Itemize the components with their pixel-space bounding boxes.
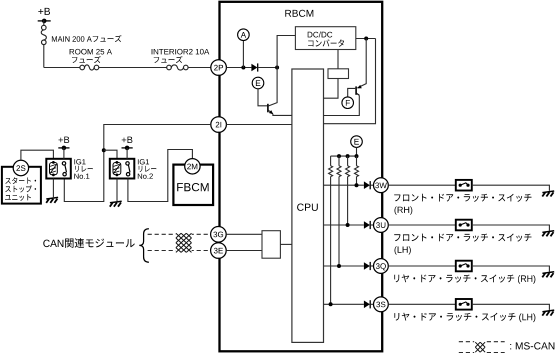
- wire ROOM fuse to INTERIOR2 fuse: [99, 67, 167, 69]
- door latch switch 3S: [456, 299, 472, 310]
- relay IG1 No.2: [110, 159, 157, 179]
- diode D-3U: [364, 221, 370, 229]
- +B supply (main): [38, 8, 51, 23]
- wire E to resistor bar: [356, 147, 358, 156]
- wire diode to connector 3U: [371, 224, 374, 226]
- wire E to Q1 base: [258, 89, 267, 106]
- wire DC/DC output to node 3: [356, 38, 376, 40]
- wire switch to ground: [472, 185, 550, 191]
- fuse ROOM 25A: [70, 49, 112, 70]
- diode D1: [251, 63, 257, 71]
- ground switch 3U: [542, 231, 554, 237]
- wire junction to circle A: [242, 41, 244, 68]
- wire diode to connector 3Q: [371, 265, 374, 267]
- wire CPU to 3U: [324, 224, 364, 226]
- legend MS-CAN dashed wire: [459, 341, 505, 343]
- wire +B to relay1 switch: [63, 148, 65, 159]
- wire +B to fuse: [43, 20, 45, 25]
- RBCM module box: [220, 2, 383, 352]
- relay coil L1 (box): [328, 69, 349, 79]
- legend label MS-CAN: [510, 342, 554, 349]
- +B supply relay No.2: [122, 137, 133, 151]
- wire CPU to 3W: [324, 184, 364, 186]
- wire Q2 base to circle F: [348, 88, 356, 97]
- wire switch to ground: [472, 304, 550, 310]
- wire node3 down to Q2 emitter: [357, 39, 366, 88]
- circle E (base drive): [252, 77, 264, 89]
- ground relay2: [110, 201, 122, 207]
- circle F: [342, 97, 354, 109]
- resistor R3: [337, 156, 341, 266]
- wire transceiver to CPU: [280, 243, 292, 245]
- door latch switch 3Q: [456, 261, 472, 272]
- node dots on bar: [337, 154, 341, 158]
- wire switch to ground: [472, 266, 550, 272]
- wire 3U to switch: [388, 224, 456, 226]
- label switch 3U: [394, 234, 531, 255]
- resistor feed bar: [331, 155, 357, 157]
- wire Q1 emitter to CPU: [273, 114, 292, 116]
- wire CPU to 3S: [324, 303, 364, 305]
- diode D-3Q: [364, 262, 370, 270]
- node junction relay coil feed: [102, 148, 106, 152]
- circle E (pull-up supply): [351, 136, 363, 148]
- node junction 3: [364, 37, 368, 41]
- wire 2I to relay circuit: [64, 125, 211, 202]
- connector 2P: [211, 60, 227, 76]
- connector 3G: [211, 227, 227, 243]
- wire 3W to switch: [388, 184, 456, 186]
- node junction at A branch: [241, 66, 245, 70]
- connector 3Q: [374, 259, 389, 274]
- wire diode to connector 3S: [371, 303, 374, 305]
- ground switch 3S: [542, 310, 554, 316]
- connector 2M: [185, 159, 200, 174]
- node dot 3Q: [337, 264, 341, 268]
- node dot 3S: [329, 302, 333, 306]
- wire node2 to DC/DC input: [277, 36, 295, 68]
- wire L1 to CPU: [324, 79, 339, 99]
- relay IG1 No.1: [46, 159, 93, 179]
- wire CAN-H dashed: [148, 233, 211, 235]
- door latch switch 3U: [456, 220, 472, 231]
- circle A: [238, 29, 250, 41]
- wire 3E to transceiver: [226, 250, 262, 252]
- start-stop unit box: [2, 167, 41, 204]
- resistor R4: [329, 156, 333, 304]
- fuse MAIN 200A: [41, 25, 121, 44]
- ground switch 3Q: [542, 272, 554, 278]
- resistor R1: [355, 156, 359, 185]
- legend twisted pair symbol: [474, 340, 486, 354]
- wire CPU to 3Q: [324, 265, 364, 267]
- wire switch to ground: [472, 225, 550, 231]
- DC/DC converter U2: [295, 27, 355, 50]
- label switch 3Q: [394, 274, 535, 283]
- wire relay2 switch to 2M: [128, 150, 192, 202]
- wire node to relay No.2 coil: [104, 150, 117, 159]
- wire INTERIOR2 fuse to connector 2P: [188, 67, 211, 69]
- label switch 3S: [394, 313, 535, 322]
- wire diode to node 2: [258, 67, 277, 69]
- door latch switch 3W: [456, 180, 472, 191]
- connector 2I: [211, 117, 227, 133]
- CAN transceiver block: [262, 231, 280, 259]
- connector 3U: [374, 218, 389, 233]
- wire 2P to diode: [226, 67, 251, 69]
- wire DC/DC bottom to relay coil L1: [337, 50, 339, 69]
- wire CAN-L dashed: [148, 250, 211, 252]
- wire +B to relay2 switch: [126, 148, 128, 159]
- +B supply relay No.1: [58, 137, 69, 151]
- diode D-3S: [364, 300, 370, 308]
- FBCM box: [173, 165, 213, 205]
- twisted pair symbol: [176, 231, 192, 253]
- wire 3Q to switch: [388, 265, 456, 267]
- connector 3W: [374, 178, 389, 193]
- node dot 3U: [346, 223, 350, 227]
- wire relay2 coil to ground: [116, 179, 118, 202]
- CPU block: [292, 69, 324, 342]
- wire 2S to relay No.1 coil: [21, 150, 54, 160]
- wire Q2 collector to CPU: [324, 95, 360, 115]
- fuse INTERIOR2 10A: [152, 49, 210, 70]
- connector 3S: [374, 297, 389, 312]
- wire 3G to transceiver: [226, 233, 262, 235]
- brace: [139, 229, 149, 263]
- wire 3S to switch: [388, 303, 456, 305]
- wire DC/DC rail down into CPU: [324, 39, 376, 124]
- ground relay1: [46, 197, 58, 203]
- wire fuse to node, horizontal feed to 2P: [43, 45, 45, 68]
- label CAN related module: [43, 238, 134, 248]
- connector 2S: [13, 160, 28, 175]
- resistor R2: [346, 156, 350, 225]
- ground switch 3W: [542, 191, 554, 197]
- node dot 3W: [355, 183, 359, 187]
- node junction 2: [275, 66, 279, 70]
- connector 3E: [211, 243, 227, 259]
- label switch 3W: [394, 194, 531, 215]
- wire 2I to CPU: [226, 124, 292, 126]
- transistor Q1: [268, 68, 277, 115]
- wire diode to connector 3W: [371, 184, 374, 186]
- diode D-3W: [364, 181, 370, 189]
- transistor Q2: [356, 85, 362, 95]
- wire relay1 coil to ground: [52, 179, 54, 198]
